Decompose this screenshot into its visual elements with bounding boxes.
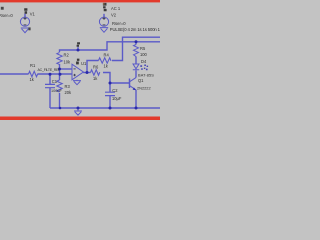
node label blob at V1 ground — [28, 27, 30, 30]
svg-text:V1: V1 — [30, 11, 36, 16]
resistor R6 — [91, 70, 100, 75]
wire rail y37 from right edge to corner x122.5 down to R4 right end — [112, 37, 160, 60]
wire C1 top — [49, 74, 51, 84]
svg-text:U1: U1 — [81, 61, 87, 66]
wire C1 bottom — [49, 88, 51, 108]
voltage source V1 — [20, 17, 29, 26]
svg-text:C2: C2 — [112, 88, 118, 93]
V1 minus sign — [24, 24, 27, 26]
wire flag stub node y50 — [77, 47, 79, 50]
junction node dot R5 top — [135, 40, 138, 43]
wire bottom rail — [50, 107, 160, 109]
svg-text:R1: R1 — [30, 63, 36, 68]
wire R5 top — [135, 42, 137, 45]
flag above op-amp V+ — [76, 59, 79, 65]
wire C2 bottom — [109, 96, 111, 108]
op-amp minus input mark — [74, 68, 76, 70]
svg-text:BAT-85S: BAT-85S — [138, 72, 154, 77]
svg-text:C1: C1 — [52, 79, 58, 84]
svg-text:20k: 20k — [65, 90, 73, 95]
wire V2 top stub — [103, 14, 105, 17]
ground below op-amp — [73, 80, 81, 85]
ground on bottom rail — [74, 108, 82, 115]
svg-text:D4: D4 — [141, 59, 147, 64]
transistor Q1 — [129, 79, 131, 89]
svg-text:AC_FILTE_REF: AC_FILTE_REF — [38, 68, 61, 72]
junction node dot base — [109, 82, 112, 85]
V1 plus sign — [24, 17, 27, 20]
plus minus marks of sources and opamp — [24, 17, 106, 76]
wire R2 bottom column to R3 — [59, 64, 61, 80]
voltage source V2 — [99, 17, 108, 26]
resistor R3 — [57, 80, 62, 92]
wire R1 right to opamp plus input — [38, 73, 72, 75]
junction node dot y50 — [77, 49, 80, 52]
svg-text:Rser=0: Rser=0 — [0, 13, 13, 18]
wire R1 left from edge — [0, 73, 29, 75]
wire Q1 emitter to rail — [135, 90, 137, 108]
capacitor C1 — [45, 84, 55, 87]
ground below V2 — [100, 28, 108, 33]
toolbar icon blob top-left — [1, 7, 4, 10]
resistor R4 — [99, 58, 112, 63]
svg-text:AC 1: AC 1 — [111, 6, 121, 11]
flag above V2 — [103, 3, 107, 11]
bottom red bar — [0, 117, 160, 121]
junction node dot rail ground — [77, 107, 80, 110]
resistor R5 — [134, 45, 139, 57]
junction node dot rail R3 — [59, 107, 62, 110]
wire opamp minus input — [60, 68, 73, 70]
diode D4 — [133, 64, 139, 70]
V2 minus sign — [103, 24, 106, 26]
junction node dot C1 top — [49, 73, 52, 76]
ground below V1 — [21, 28, 29, 33]
op-amp U1 — [72, 64, 83, 80]
wire D4 to collector — [135, 70, 137, 77]
V2 plus sign — [103, 17, 106, 20]
wire R3 bottom to rail — [59, 93, 61, 108]
svg-text:10k: 10k — [64, 60, 72, 65]
svg-text:Q1: Q1 — [138, 78, 144, 83]
wire base to Q1 — [110, 82, 130, 84]
op-amp plus input mark — [73, 74, 75, 76]
wire opamp output — [83, 72, 90, 74]
wire R4 left to vertical x87 down to output node — [87, 61, 99, 73]
wire R5 bottom to D4 — [135, 57, 137, 65]
svg-text:R5: R5 — [140, 46, 146, 51]
junction node dot output — [86, 71, 89, 74]
wire R6 right to vertical x110 down to base node — [103, 73, 110, 84]
top red title bar — [0, 0, 160, 2]
svg-text:10µF: 10µF — [112, 96, 122, 101]
junction node dot rail Q1 — [135, 107, 138, 110]
resistor R1 — [29, 71, 38, 76]
transistor Q1 emitter arrow — [133, 88, 136, 91]
junction node dot rail C2 — [109, 107, 112, 110]
svg-text:R4: R4 — [104, 52, 110, 57]
svg-text:100nF: 100nF — [51, 89, 62, 93]
wire node top: R2 top to corner, up to rail y42, right to edge — [60, 42, 161, 52]
capacitor C2 — [105, 92, 115, 95]
flag above node y50 — [77, 42, 80, 47]
wire V1 top stub — [24, 14, 26, 18]
svg-text:R6: R6 — [93, 65, 99, 70]
junction node dot minus input — [58, 68, 61, 71]
svg-text:2N2222: 2N2222 — [137, 85, 151, 90]
background — [0, 0, 160, 120]
svg-text:R2: R2 — [64, 53, 70, 58]
svg-text:Rser=0: Rser=0 — [112, 21, 126, 26]
svg-text:PULSE(0 4 2m 1s 1s 500n 1u 4: PULSE(0 4 2m 1s 1s 500n 1u 4 — [110, 27, 160, 32]
svg-text:R3: R3 — [65, 84, 71, 89]
junction node dot R3 top — [59, 73, 62, 76]
wire C2 top — [109, 83, 111, 92]
svg-text:V2: V2 — [111, 12, 117, 17]
blue glyphs right of D4 — [140, 65, 148, 71]
resistor R2 — [57, 53, 62, 65]
flag above V1 — [24, 8, 27, 13]
svg-text:100: 100 — [140, 52, 148, 57]
